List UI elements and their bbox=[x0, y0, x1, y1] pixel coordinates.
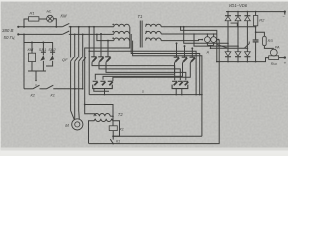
wire chain lead2 bbox=[40, 88, 47, 90]
label K1 bottom contact bbox=[116, 140, 120, 144]
svg-text:КМ: КМ bbox=[61, 14, 67, 19]
wire control drop bbox=[23, 33, 53, 42]
transformer T1 primary winding 1 bbox=[114, 24, 130, 27]
transformer T1 core bbox=[140, 21, 142, 48]
svg-text:VD1–VD6: VD1–VD6 bbox=[229, 3, 248, 8]
breaker QF pole1 bbox=[71, 57, 74, 61]
ammeter PA bbox=[270, 49, 277, 56]
paper background bbox=[0, 0, 288, 156]
thyristor group VS10-VS12 bbox=[172, 81, 188, 88]
svg-text:QF: QF bbox=[62, 57, 68, 62]
wire mains vertical 4 bbox=[82, 33, 84, 57]
transformer T2 primary bbox=[94, 114, 110, 117]
capacitor C1 bbox=[253, 40, 259, 42]
wire C1 bottom lead bbox=[255, 42, 257, 62]
wire R1 to HL bbox=[39, 18, 47, 20]
wire branch down-right bbox=[53, 19, 57, 28]
wire K2 tick bbox=[35, 71, 37, 81]
wire mains vertical 3 bbox=[78, 26, 80, 58]
wire chain lead1 bbox=[24, 88, 33, 90]
wire VS10-12 out a bbox=[175, 89, 177, 96]
shunt R4 bbox=[269, 56, 279, 60]
wire secondary feed 3 bbox=[161, 39, 203, 41]
label K1 contact left bbox=[51, 94, 55, 98]
svg-text:+: + bbox=[284, 61, 287, 66]
contact K2 bbox=[33, 84, 40, 88]
wire line1 left bbox=[18, 26, 62, 28]
pulse device A circles bbox=[205, 37, 217, 43]
label K2 bbox=[31, 94, 36, 98]
svg-text:К1: К1 bbox=[120, 127, 124, 131]
label 50Hz bbox=[4, 35, 15, 40]
wire line2 right bbox=[69, 33, 114, 35]
contactor coil KM bbox=[28, 53, 35, 61]
wire VS7-9 out bbox=[104, 89, 106, 96]
wire VS2 anode bbox=[100, 33, 102, 57]
wire line2 left bbox=[18, 33, 62, 35]
wire K1 coil feed bbox=[84, 104, 113, 126]
wire KM coil top lead bbox=[31, 42, 33, 54]
wire channel2 bbox=[88, 26, 197, 96]
diode VD4 lead bbox=[227, 57, 229, 62]
wire under-bench stub bbox=[94, 89, 109, 92]
diode VD3 bbox=[244, 12, 250, 52]
wire inner loop bbox=[113, 135, 202, 137]
svg-text:A: A bbox=[206, 51, 210, 55]
label M bbox=[65, 123, 69, 128]
wire outer loop bbox=[89, 40, 228, 144]
lamp HL bbox=[47, 15, 54, 22]
wire R3 branch bbox=[255, 31, 265, 36]
button SB2 bbox=[46, 43, 55, 67]
transformer T1 primary winding 2 bbox=[114, 31, 130, 34]
wire KM coil bottom bbox=[31, 62, 33, 72]
transformer T1 secondary winding 3 bbox=[146, 38, 162, 41]
thyristor VS1 bbox=[91, 57, 96, 63]
wire secondary feed 1 bbox=[161, 26, 229, 44]
transformer T1 primary winding 3 bbox=[114, 38, 130, 41]
wire T2 sec left bbox=[89, 119, 96, 144]
wire left rail bbox=[23, 34, 25, 88]
terminal minus bbox=[283, 11, 286, 20]
diode VD5 lead bbox=[237, 57, 239, 62]
svg-text:HL: HL bbox=[47, 9, 52, 14]
wire motor feed 1 bbox=[71, 61, 75, 119]
svg-text:М: М bbox=[65, 123, 69, 128]
svg-text:К1: К1 bbox=[51, 94, 55, 98]
label QF bbox=[62, 57, 68, 62]
label T2 bbox=[118, 112, 124, 117]
wire channel3 bbox=[131, 34, 200, 95]
diode VD5 bbox=[235, 52, 241, 57]
wire channel4 bbox=[133, 41, 203, 137]
wire cathode bus bbox=[226, 11, 285, 13]
label PA bbox=[275, 46, 280, 50]
label K1 coil bbox=[120, 127, 124, 131]
wire secondary feed 2 bbox=[161, 33, 239, 47]
wire T2 prim right bbox=[110, 115, 114, 117]
label VD1-VD6 bbox=[229, 3, 248, 8]
pulse device bottom ticks bbox=[207, 43, 213, 50]
wire K1 coil bottom bbox=[112, 131, 114, 138]
motor M bbox=[72, 119, 83, 130]
pulse device top ticks bbox=[207, 33, 215, 37]
diode VD2 bbox=[235, 12, 241, 52]
label A bbox=[206, 51, 210, 55]
svg-text:R1: R1 bbox=[30, 11, 35, 16]
wire channel1 T2 feed bbox=[85, 27, 130, 116]
wire line1 right bbox=[69, 26, 114, 28]
label R2 bbox=[259, 18, 265, 23]
thyristor VS6 bbox=[190, 57, 195, 63]
wire VS2 cathode bbox=[99, 62, 180, 80]
label R4 bbox=[271, 62, 278, 66]
svg-text:s: s bbox=[142, 90, 144, 94]
breaker QF pole2 bbox=[75, 57, 78, 61]
wire chain lead3 bbox=[53, 88, 83, 90]
wire VS4 anode bbox=[176, 42, 178, 57]
wire motor feed 3 bbox=[78, 61, 81, 119]
transformer T1 secondary winding 2 bbox=[146, 31, 162, 34]
thyristor group VS7-VS9 bbox=[93, 81, 113, 88]
wire VS6 cathode bbox=[113, 63, 190, 82]
svg-text:Т1: Т1 bbox=[138, 14, 143, 19]
wire R2 bottom lead bbox=[255, 26, 257, 40]
wire mains vertical 1 bbox=[70, 26, 72, 58]
label SB2 bbox=[48, 47, 56, 52]
wire VS1 cathode bbox=[92, 62, 175, 80]
wire slant feed bbox=[217, 44, 227, 48]
wire VS1 anode bbox=[93, 26, 95, 57]
wire branch up-left bbox=[23, 19, 28, 28]
contactor KM main contact 1 bbox=[62, 23, 69, 26]
wire control bottom bus bbox=[28, 70, 46, 72]
label HL bbox=[47, 9, 52, 14]
contactor KM main contact 2 bbox=[62, 31, 69, 34]
thyristor VS2 bbox=[98, 57, 103, 63]
wire VS5 cathode bbox=[103, 63, 183, 80]
wire T2 sec right bbox=[112, 119, 120, 137]
diode VD1 bbox=[225, 12, 231, 52]
svg-text:КМ: КМ bbox=[28, 47, 34, 52]
label KM coil bbox=[28, 47, 34, 52]
wire VS6 anode bbox=[191, 47, 193, 57]
transformer T1 secondary winding 1 bbox=[146, 24, 162, 27]
wire R2 top lead bbox=[255, 11, 257, 16]
wire mains vertical 2 bbox=[74, 33, 76, 57]
thyristor VS3 bbox=[105, 57, 110, 63]
button SB1 bbox=[40, 42, 46, 71]
wire leg jog bbox=[231, 23, 238, 27]
svg-text:R3: R3 bbox=[268, 38, 274, 43]
wire VS5 anode bbox=[184, 45, 186, 57]
wire lower bus main bbox=[89, 94, 202, 96]
breaker QF pole3 bbox=[79, 57, 82, 61]
terminal plus bbox=[284, 61, 287, 66]
label 380V bbox=[2, 28, 14, 33]
transformer T2 secondary bbox=[95, 119, 111, 122]
resistor R3 bbox=[263, 36, 267, 45]
label s node bbox=[142, 90, 144, 94]
diode VD4 bbox=[225, 52, 231, 57]
svg-text:PA: PA bbox=[275, 46, 280, 50]
thyristor VS4 bbox=[174, 57, 179, 63]
svg-text:SB2: SB2 bbox=[48, 47, 56, 52]
thyristor VS5 bbox=[182, 57, 187, 63]
label SB1 bbox=[39, 47, 47, 52]
wire VS4 cathode bbox=[95, 63, 174, 80]
wire slant jog bbox=[244, 42, 249, 49]
diode VD6 lead bbox=[246, 57, 248, 62]
wire anode bottom bus bbox=[227, 58, 269, 63]
svg-text:380 В: 380 В bbox=[2, 28, 14, 33]
wire motor feed 2 bbox=[74, 61, 76, 119]
svg-text:SB1: SB1 bbox=[39, 47, 47, 52]
wire shunt out bbox=[279, 56, 286, 58]
wire row3 feed bbox=[96, 33, 114, 40]
relay coil K1 bbox=[109, 126, 117, 131]
wire row1 extension bbox=[184, 26, 257, 28]
svg-text:R2: R2 bbox=[259, 18, 265, 23]
T1 primary polarity dots bbox=[112, 24, 114, 39]
label T1 bbox=[138, 14, 143, 19]
T1 secondary polarity dots bbox=[146, 24, 148, 39]
svg-text:Rш: Rш bbox=[271, 62, 278, 66]
contact K1 bottom bbox=[110, 136, 114, 144]
label R3 bbox=[268, 38, 274, 43]
supply terminal dots bbox=[17, 26, 19, 36]
wire motor feed 4 bbox=[82, 61, 84, 89]
label R1 bbox=[30, 11, 35, 16]
svg-text:К1: К1 bbox=[116, 140, 120, 144]
wire feed3 lower bbox=[211, 48, 249, 50]
svg-text:Т2: Т2 bbox=[118, 112, 124, 117]
breaker QF pole4 bbox=[83, 57, 86, 61]
wire VS3 cathode bbox=[106, 62, 186, 80]
wire R3 bottom lead bbox=[264, 46, 273, 49]
resistor R1 bbox=[29, 17, 39, 21]
diode VD6 bbox=[244, 52, 250, 57]
wire VS3 anode bbox=[107, 40, 109, 57]
contact K1 bbox=[47, 85, 54, 89]
wire VS10-12 out b bbox=[181, 89, 183, 96]
wire device right lead bbox=[217, 39, 220, 41]
wire row1 tap b bbox=[180, 26, 218, 62]
svg-text:50 Гц: 50 Гц bbox=[4, 35, 15, 40]
label KM contacts bbox=[61, 14, 67, 19]
resistor R2 bbox=[253, 16, 257, 26]
